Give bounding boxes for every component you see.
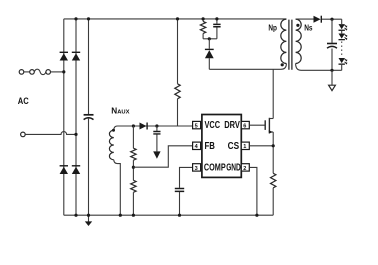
node FB divider junction <box>132 166 135 169</box>
svg-text:FB: FB <box>205 141 215 152</box>
svg-text:CS: CS <box>228 141 240 152</box>
svg-text:Np: Np <box>268 22 277 32</box>
node output cap tap <box>330 18 333 21</box>
node top rail bulk branch <box>87 17 90 20</box>
pin 2 box GND <box>241 164 249 172</box>
wire primary bottom to transformer <box>209 64 286 70</box>
resistor R3 divider lower <box>131 180 136 215</box>
wire LED string top <box>341 19 343 24</box>
wire CS pin to sense node <box>249 145 273 147</box>
LED LED2 <box>339 34 348 41</box>
svg-text:DRV: DRV <box>224 120 240 131</box>
pin 4 box FB <box>193 142 201 150</box>
node neutral to leg2 <box>74 133 77 136</box>
pin 6 box DRV <box>241 121 249 129</box>
node CS source junction <box>272 144 275 147</box>
resistor R1 startup from HV rail <box>175 19 180 126</box>
transformer Np winding <box>281 19 287 63</box>
pin 5 box VCC <box>193 121 201 129</box>
svg-text:VCC: VCC <box>205 120 221 131</box>
svg-text:2: 2 <box>243 166 246 172</box>
node snubber diode junction <box>208 37 211 40</box>
ground vcc cap arrow <box>153 151 160 158</box>
capacitor C5 output polarized <box>327 19 337 70</box>
diode D1 bridge upper-left <box>60 52 68 61</box>
svg-text:3: 3 <box>195 166 198 172</box>
wire drain vertical <box>272 69 274 118</box>
diode D5 vcc rectifier <box>140 123 148 130</box>
wire GND pin down <box>249 167 257 215</box>
wire bottom return rail <box>64 214 273 216</box>
wire snubber bottom <box>203 38 217 40</box>
inductor Naux winding <box>109 126 120 215</box>
wire AC neutral with hop over leg1 <box>21 132 76 137</box>
wire VCC net horizontal <box>118 125 193 127</box>
diode D3 bridge lower-left <box>60 165 68 174</box>
transformer Ns winding <box>296 19 302 63</box>
node fuse to leg1 <box>62 70 65 73</box>
svg-text:1: 1 <box>243 144 246 150</box>
node GND to rail <box>255 214 258 217</box>
wire bulk cap branch <box>88 19 90 215</box>
resistor R5 current sense <box>271 173 276 215</box>
wire Ns top lead <box>296 18 314 20</box>
wire source down to CS node <box>272 132 274 173</box>
node Np phase dot <box>281 63 284 66</box>
wire top HV rail <box>64 18 287 20</box>
node Naux phase dot <box>112 129 115 132</box>
transistor Q1 mosfet <box>265 118 273 134</box>
wire LED dotted continuation <box>341 42 343 57</box>
wire COMP to cap <box>180 167 193 188</box>
resistor R4 snubber <box>200 19 205 39</box>
transformer core <box>289 20 292 70</box>
svg-text:Ns: Ns <box>304 22 313 32</box>
diode D4 bridge lower-right <box>72 165 80 174</box>
svg-text:AC: AC <box>18 96 29 106</box>
node rail bulk bottom <box>87 214 90 217</box>
wire bridge leg 1 vertical <box>63 19 65 215</box>
capacitor C3 comp <box>175 189 184 216</box>
diode D2 bridge upper-right <box>72 52 80 61</box>
wire bridge leg 2 vertical <box>75 19 77 215</box>
op-amp U1 controller IC body <box>202 115 241 178</box>
node snubber R top <box>202 17 205 20</box>
diode D7 output rectifier <box>314 16 342 23</box>
node snubber C top <box>215 17 218 20</box>
ground primary arrow <box>85 215 92 226</box>
diode D6 clamp <box>205 39 214 70</box>
ground secondary <box>329 70 336 90</box>
node startup resistor top <box>176 17 179 20</box>
node Ns phase dot <box>296 24 299 27</box>
wire FB to divider <box>133 146 192 167</box>
node divider bottom rail <box>132 214 135 217</box>
svg-text:COMP: COMP <box>204 162 226 173</box>
LED LED3 <box>339 58 348 65</box>
node divider tap on VCC wire <box>132 124 135 127</box>
node top rail leg2 <box>74 17 77 20</box>
fuse F1 <box>19 69 64 74</box>
svg-text:5: 5 <box>195 124 198 130</box>
pin 1 box CS <box>241 142 249 150</box>
capacitor C2 vcc <box>153 126 160 151</box>
capacitor C4 snubber <box>213 19 220 39</box>
node rail leg2 bottom <box>74 214 77 217</box>
svg-text:GND: GND <box>226 162 241 173</box>
pin 3 box COMP <box>193 164 201 172</box>
wire DRV to gate <box>249 124 265 126</box>
node vcc cap tap <box>155 124 158 127</box>
wire Ns bottom lead <box>296 64 342 71</box>
capacitor bulk C1 polarized <box>84 115 94 120</box>
LED LED1 <box>339 24 348 31</box>
svg-text:6: 6 <box>243 124 246 130</box>
node comp cap to rail <box>178 214 181 217</box>
resistor R2 divider upper <box>131 126 136 180</box>
node Naux bottom to rail <box>119 214 122 217</box>
node output cap bottom <box>330 69 333 72</box>
